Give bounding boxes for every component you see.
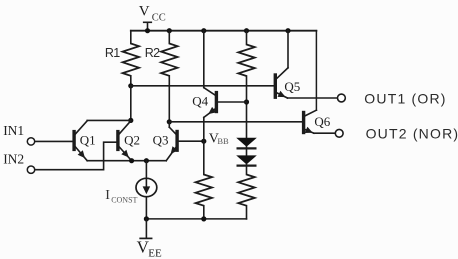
svg-text:Q4: Q4 [192,94,208,109]
transistor Q3 (mirrored) [175,132,178,151]
wire: Q5 base wire from R1 bottom [131,85,274,87]
input terminal IN1 [27,138,34,145]
wire: Q4 base to R3 node [218,101,247,103]
svg-text:R2: R2 [145,46,160,60]
node: bottom rail VEE tap [144,216,149,221]
svg-text:Q1: Q1 [80,133,96,148]
resistor R2 [161,44,177,76]
svg-text:IN1: IN1 [3,123,24,138]
wire: Q4 collector up to rail [203,31,205,88]
svg-text:OUT1 (OR): OUT1 (OR) [364,91,446,107]
resistor R5 (diode pulldown) [238,175,254,206]
transistor Q4 (mirrored) [215,93,218,112]
wire: Q3 base to VBB [178,140,204,142]
transistor Q6 [302,113,305,133]
resistor R4 (VBB pulldown) [203,141,205,174]
node: rail dot R2 [167,28,172,33]
wire: rail to R2 [168,31,170,44]
svg-text:EE: EE [148,247,162,259]
diode D1 [236,138,257,147]
wire: rail corner down to R1 [130,31,132,44]
diode D2 [236,155,257,164]
transistor Q1 [72,132,75,150]
node: Q1/Q2 collector junction [128,118,133,123]
wire: IN2 to Q2 base (right, up, right) [35,142,117,170]
node: R1 bottom junction [128,83,133,88]
node: rail dot Q5 collector [285,28,290,33]
svg-text:IN2: IN2 [3,152,24,167]
svg-text:Q3: Q3 [153,132,169,147]
svg-text:V: V [139,4,150,20]
wire: OUT2 from Q6 emitter [314,132,336,134]
svg-text:Q6: Q6 [314,114,330,129]
svg-text:CONST: CONST [111,196,137,205]
wire: IN1 to Q1 base [35,140,73,142]
current source ICONST [145,161,147,219]
power VCC tick [147,23,149,31]
wire: R1 junction down to Q1/Q2 collectors [130,86,132,121]
svg-text:OUT2 (NOR): OUT2 (NOR) [366,126,458,142]
wire: R1 bottom stub [130,76,132,86]
node: rail dot R3 [244,28,249,33]
wire: bottom rail [146,218,246,220]
transistor Q2 [116,132,119,150]
output terminal OUT1 [338,94,346,102]
wire: rail right corner down to Q6 collector [315,31,317,111]
node: rail dot VCC tick [145,28,150,33]
output terminal OUT2 [335,129,343,137]
node: bottom rail R4 [201,216,206,221]
node: R3 bottom / Q4 base junction [244,99,249,104]
wire: Q1 collector horizontal [87,119,131,121]
wire: Q3 collector to Q6 base [169,121,302,123]
node: R2 / Q3 collector / Q6 base junction [167,119,172,124]
wire: Q4 emitter down to VBB [203,117,205,141]
wire: D2 to R5 [246,164,248,174]
svg-text:BB: BB [217,136,229,146]
wire: R2 bottom down to Q3 collector node [168,76,170,122]
svg-text:Q2: Q2 [124,133,140,148]
wire: VCC top rail [131,30,317,32]
wire: between diodes [246,147,248,156]
node: Q2 emitter junction [129,158,134,163]
resistor R1 [123,44,139,76]
resistor R3 (bias) [238,45,254,77]
svg-text:CC: CC [152,12,166,23]
node: VBB [201,139,206,144]
wire: common emitter rail [87,160,166,162]
transistor Q5 [274,75,277,97]
wire: rail to R3 [246,31,248,45]
node: current source tap [144,158,149,163]
power VEE stub [145,219,147,238]
svg-text:Q5: Q5 [284,79,300,94]
svg-text:I: I [105,188,110,203]
node: rail dot Q4 collector [201,28,206,33]
wire: R3 bottom down to diodes [246,76,248,138]
wire: OUT1 from Q5 emitter [288,97,338,99]
input terminal IN2 [27,166,34,173]
svg-text:R1: R1 [105,46,120,60]
